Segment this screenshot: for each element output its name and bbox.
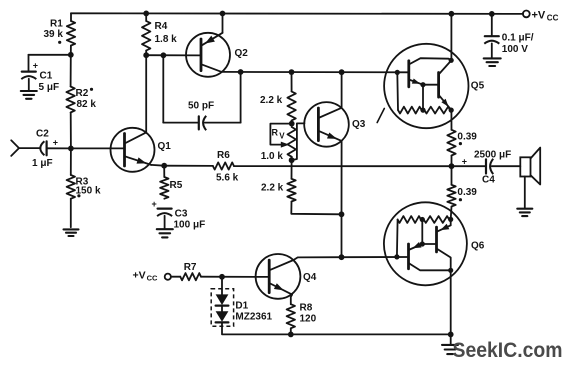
wire R8 bottom lead	[290, 328, 292, 334]
svg-text:R4: R4	[155, 21, 168, 32]
ground below speaker	[517, 209, 532, 216]
capacitor C3 100uF body	[157, 209, 172, 217]
label C1	[40, 71, 53, 82]
wire C2 to base node	[47, 147, 71, 149]
svg-text:1.0 k: 1.0 k	[261, 151, 284, 162]
svg-text:R: R	[272, 127, 279, 137]
label 100 uF value	[174, 219, 206, 230]
svg-text:C1: C1	[40, 71, 53, 82]
capacitor C4 2500uF body	[486, 159, 493, 174]
label R8	[300, 302, 313, 313]
svg-text:0.39: 0.39	[457, 131, 477, 142]
svg-text:+: +	[462, 156, 467, 166]
diode D1b	[216, 311, 229, 322]
svg-text:120: 120	[300, 314, 317, 325]
wire Vcc terminal to R7	[171, 276, 180, 278]
watermark SeekIC.com	[453, 339, 563, 362]
label RV	[272, 127, 286, 140]
wire bypass cap bottom lead	[491, 43, 493, 57]
svg-text:R6: R6	[217, 150, 230, 161]
Q6 base wire	[342, 256, 409, 258]
wire Q6 collector down to rail	[450, 270, 452, 334]
wire R7 to Q4 base node	[201, 276, 269, 278]
wire RV bottom to Q3 base riser	[292, 123, 305, 160]
wire C1 top lead	[28, 55, 30, 72]
svg-text:R5: R5	[170, 180, 183, 191]
wire Q1 collector up to node B	[145, 55, 147, 132]
junction Q3 collector on bus	[339, 69, 345, 75]
Q6 inner collector junction	[448, 268, 453, 273]
label +Vcc top	[532, 10, 559, 23]
svg-text:R1: R1	[50, 19, 63, 30]
wire R2 bottom lead to input node	[70, 113, 72, 149]
wire C1 bottom lead	[28, 79, 30, 91]
potentiometer RV body	[288, 127, 296, 157]
wire Q4 collector to bias node	[294, 257, 342, 260]
label 39 k value	[44, 29, 64, 40]
wire RV bottom node down	[291, 160, 293, 179]
Q5 inner T1 base bar	[407, 61, 410, 87]
resistor 2.2k upper body	[287, 92, 295, 121]
label MZ2361	[235, 312, 272, 323]
diode D1a	[216, 294, 229, 305]
junction Q5 collector on rail	[449, 11, 455, 17]
wire D1 mid lead	[221, 306, 223, 312]
wire RV wiper route	[270, 124, 291, 145]
resistor R6 5.6k body	[213, 162, 234, 169]
resistor R2 82k body	[66, 87, 74, 113]
wire input node to R3	[70, 148, 72, 175]
plus sign C4	[462, 156, 467, 166]
junction node A (R1/R2/C1)	[68, 52, 74, 58]
resistor R4 1.8k body	[142, 21, 150, 51]
ground bottom rail	[442, 345, 458, 354]
svg-text:C4: C4	[482, 174, 495, 185]
wire bypass cap top lead	[491, 14, 493, 36]
wire input node to Q1 base	[71, 147, 125, 149]
junction R4 top on rail	[143, 11, 149, 17]
transistor Q2	[186, 33, 230, 77]
svg-text:C3: C3	[175, 209, 188, 220]
label C3	[175, 209, 188, 220]
label 5.6 k value	[216, 173, 239, 184]
+Vcc terminal circle	[523, 11, 530, 18]
Q5 inner resistor mid junction	[420, 108, 425, 113]
Q6 inner T2 emitter stub	[450, 219, 452, 225]
label R4	[155, 21, 168, 32]
Q5 inner resistor left	[398, 107, 422, 114]
svg-text:+: +	[53, 138, 58, 148]
junction input node (C2/R2/R3/Q1 base)	[68, 146, 74, 152]
label C4	[482, 174, 495, 185]
wire 2.2k lower to bias node	[291, 202, 341, 215]
wire +Vcc top supply rail	[71, 12, 523, 15]
wire rail to Vcc terminal	[522, 13, 524, 15]
Q6 inner resistor right	[424, 216, 450, 223]
junction 50pF tap on Q2 base wire	[161, 52, 167, 58]
wire output node to 0.39 lower	[451, 166, 453, 185]
label 50 pF	[188, 101, 214, 112]
capacitor C1 5uF body	[21, 72, 36, 80]
plus sign C2	[53, 138, 58, 148]
Q6 inner base-res wire	[396, 220, 399, 257]
wire D1 top lead	[221, 277, 223, 295]
Q5 inner T2 emitter	[439, 95, 452, 110]
Q6 inner T2 emitter	[437, 224, 451, 232]
capacitor 50 pF body	[199, 116, 206, 130]
svg-text:CC: CC	[547, 14, 559, 23]
wire R4 bottom lead	[145, 51, 147, 56]
asterisk mark R3	[77, 194, 80, 197]
svg-text:SeekIC.com: SeekIC.com	[453, 339, 563, 362]
speaker driver	[520, 148, 540, 185]
svg-text:Q4: Q4	[303, 272, 317, 283]
label R3	[76, 177, 89, 188]
wire R1 bottom lead	[70, 46, 72, 55]
label 1 uF value	[32, 158, 53, 169]
label C2	[36, 129, 49, 140]
Q6 inner resistor mid junction	[420, 217, 425, 222]
label 0.39 upper	[457, 131, 477, 142]
junction bottom rail ground node	[448, 332, 454, 338]
label 2500 uF	[474, 150, 511, 161]
Q5 inner node T1e junction	[420, 82, 425, 87]
svg-text:82 k: 82 k	[77, 99, 97, 110]
asterisk mark R2	[90, 88, 93, 91]
resistor 0.39 lower body	[447, 185, 455, 207]
svg-text:2.2 k: 2.2 k	[261, 183, 284, 194]
wire ground stub	[450, 334, 452, 344]
junction bias node lower (Q4 collector/Q6 base)	[339, 254, 345, 260]
transistor Q1	[111, 128, 155, 172]
label Q4	[303, 272, 317, 283]
wire Q1 emitter feedback line left	[164, 165, 213, 167]
ground below bypass cap	[484, 58, 501, 66]
transistor Q4	[256, 254, 301, 299]
junction RV top node	[289, 121, 295, 127]
wire bottom rail	[291, 333, 451, 335]
wire node A to R2	[70, 55, 72, 87]
label 2.2 k upper	[260, 95, 283, 106]
wire output line R6 to output node	[234, 165, 452, 167]
resistor R1 39k body	[67, 21, 75, 46]
svg-text:5 μF: 5 μF	[39, 82, 60, 93]
wire Q3 emitter down to bias node	[341, 141, 343, 214]
label 100 V	[502, 44, 528, 55]
wire C3 bottom lead	[164, 216, 166, 228]
svg-text:D1: D1	[235, 300, 248, 311]
Q5 inner base junction	[395, 70, 400, 75]
svg-text:MZ2361: MZ2361	[235, 312, 272, 323]
wire input to C2	[19, 147, 40, 149]
Q5 inner T1 collector path	[409, 58, 451, 64]
Q5 inner resistor right	[424, 107, 450, 114]
wire Q4 emitter to R8	[291, 295, 292, 305]
asterisk 0.39 lower	[459, 198, 462, 201]
svg-text:C2: C2	[36, 129, 49, 140]
svg-text:V: V	[279, 131, 285, 140]
svg-text:0.39: 0.39	[457, 187, 477, 198]
wire speaker to ground	[524, 177, 526, 208]
junction R5 node	[161, 163, 167, 169]
resistor R3 150k body	[67, 175, 75, 199]
svg-text:+: +	[152, 199, 157, 209]
wire node A horizontal to C1	[29, 54, 71, 56]
svg-text:+V: +V	[133, 269, 146, 281]
label Q1	[158, 141, 172, 152]
wire C4 to speaker	[492, 165, 521, 167]
svg-text:50 pF: 50 pF	[188, 101, 214, 112]
ground below C1	[21, 91, 37, 99]
Q6 inner T2 base wire	[422, 243, 436, 245]
svg-text:Q3: Q3	[352, 119, 366, 130]
wire R1 top lead from rail corner	[70, 13, 72, 21]
svg-text:1 μF: 1 μF	[32, 158, 53, 169]
label R1	[50, 19, 63, 30]
junction bypass cap on rail	[489, 11, 495, 17]
plus sign C1	[33, 61, 38, 71]
wire Q2 emitter to rail	[222, 14, 224, 33]
wire 50pF right branch up	[240, 72, 242, 123]
wire 0.39 upper to output node	[451, 156, 453, 167]
plus sign C3	[152, 199, 157, 209]
svg-text:CC: CC	[147, 273, 158, 282]
+Vcc lower terminal circle	[165, 274, 171, 280]
wire 2.2k upper top lead	[291, 72, 293, 91]
stray mark near Q5	[377, 109, 384, 123]
transistor Q5 outline	[384, 44, 468, 128]
Q5 inner collector junction	[449, 58, 454, 63]
label 0.1 uF/	[502, 33, 534, 44]
Q6 inner base junction	[394, 254, 399, 259]
label Q5	[471, 80, 485, 91]
label +Vcc lower	[133, 269, 159, 282]
junction R8 on bottom rail	[288, 332, 294, 338]
capacitor C2 1uF body	[40, 141, 46, 155]
svg-text:0.1 μF/: 0.1 μF/	[502, 33, 534, 44]
label 2.2 k lower	[261, 183, 284, 194]
Q6 inner T1 base bar	[407, 244, 410, 269]
label D1	[235, 300, 248, 311]
svg-text:Q5: Q5	[471, 80, 485, 91]
wire Q1 emitter to R5 node	[151, 164, 164, 167]
asterisk 0.39 upper	[459, 142, 462, 145]
wire Q5 emitter down to 0.39	[450, 110, 452, 130]
wire D1 bottom to rail	[222, 322, 291, 334]
RV wiper arrow	[281, 142, 290, 148]
junction Q4 base node (R7/D1)	[219, 274, 225, 280]
asterisk mark below 39k	[58, 41, 61, 44]
capacitor 0.1uF body	[484, 36, 499, 44]
svg-text:+: +	[33, 61, 38, 71]
wire R5 top lead	[163, 166, 165, 177]
svg-text:R7: R7	[184, 262, 197, 273]
svg-text:100 V: 100 V	[502, 44, 528, 55]
wire RV bottom lead	[291, 157, 293, 160]
wire 2.2k upper bottom lead	[291, 121, 293, 124]
wire 50pF bottom left	[163, 122, 198, 124]
svg-text:+V: +V	[532, 10, 546, 22]
resistor R8 body	[287, 304, 295, 328]
label R7	[184, 262, 197, 273]
Q5 inner T2 collector	[439, 61, 452, 75]
Q6 inner emitter junction top	[448, 217, 453, 222]
svg-text:1.8 k: 1.8 k	[155, 34, 178, 45]
Q6 inner T2 collector path	[437, 249, 451, 271]
D1 dashed box	[211, 289, 233, 326]
junction output node	[449, 163, 455, 169]
Q5 inner T1 emitter	[409, 79, 423, 85]
label 1.0 k value	[261, 151, 284, 162]
svg-text:2.2 k: 2.2 k	[260, 95, 283, 106]
wire 50pF bottom right	[205, 122, 241, 124]
resistor 2.2k lower body	[287, 179, 295, 202]
ground below C3	[157, 229, 173, 237]
label Q6	[471, 241, 485, 252]
label Q3	[352, 119, 366, 130]
Q6 inner T1 collector path	[409, 263, 451, 270]
label 5 uF value	[39, 82, 60, 93]
wire node B to Q2 base	[146, 54, 201, 56]
svg-text:39 k: 39 k	[44, 29, 64, 40]
junction RV bottom node	[289, 157, 295, 163]
label R6	[217, 150, 230, 161]
Q5 inner T2 base wire	[423, 84, 439, 86]
junction 50pF on collector bus	[238, 69, 244, 75]
Q6 inner T2 base bar	[435, 227, 438, 252]
wire 0.39 lower to Q6	[450, 207, 453, 220]
transistor Q6 outline	[384, 202, 467, 285]
wire bias node down	[341, 214, 343, 257]
Q6 inner T1 emitter	[409, 242, 423, 250]
svg-text:5.6 k: 5.6 k	[216, 173, 239, 184]
junction 2.2k upper on collector bus	[289, 69, 295, 75]
svg-text:R8: R8	[300, 302, 313, 313]
input terminal arrow	[11, 140, 19, 156]
Q5 inner base-res wire	[396, 72, 399, 110]
label 1.8 k value	[155, 34, 178, 45]
label 82 k value	[77, 99, 97, 110]
resistor 0.39 upper body	[447, 130, 455, 156]
svg-text:R2: R2	[76, 88, 89, 99]
svg-text:100 μF: 100 μF	[174, 219, 206, 230]
Q5 inner emitter-res wire	[422, 85, 424, 110]
Q5 inner emitter junction	[449, 108, 454, 113]
wire 50pF left branch down	[162, 55, 164, 122]
resistor R5 body	[160, 177, 168, 199]
junction Q2 emitter on rail	[220, 11, 226, 17]
Q6 inner T1e to resistor wire	[421, 220, 423, 245]
Q6 inner T1e junction	[420, 241, 425, 246]
wire Q5 collector to rail	[450, 14, 452, 61]
wire Q2 collector bus to Q5 base	[221, 71, 408, 73]
ground below R3	[64, 229, 79, 236]
wire R4 top lead	[145, 13, 147, 21]
label Q2	[235, 48, 249, 59]
junction node B (R4/Q1 collector/Q2 base)	[143, 52, 149, 58]
svg-text:Q6: Q6	[471, 241, 485, 252]
resistor R7 body	[180, 273, 201, 280]
wire R3 bottom lead	[70, 199, 72, 228]
svg-text:Q2: Q2	[235, 48, 249, 59]
label 120 value	[300, 314, 317, 325]
label 0.39 lower	[457, 187, 477, 198]
label R2	[76, 88, 89, 99]
wire output node to C4	[452, 165, 486, 167]
svg-text:Q1: Q1	[158, 141, 172, 152]
Q5 inner T2 base bar	[437, 73, 440, 98]
Q6 inner resistor left	[398, 216, 421, 223]
junction bias node upper (Q3 emitter/2.2k)	[339, 211, 345, 217]
label 150 k value	[76, 186, 101, 197]
label R5	[170, 180, 183, 191]
transistor Q3	[304, 102, 349, 147]
wire Q3 collector up to bus	[341, 72, 343, 108]
